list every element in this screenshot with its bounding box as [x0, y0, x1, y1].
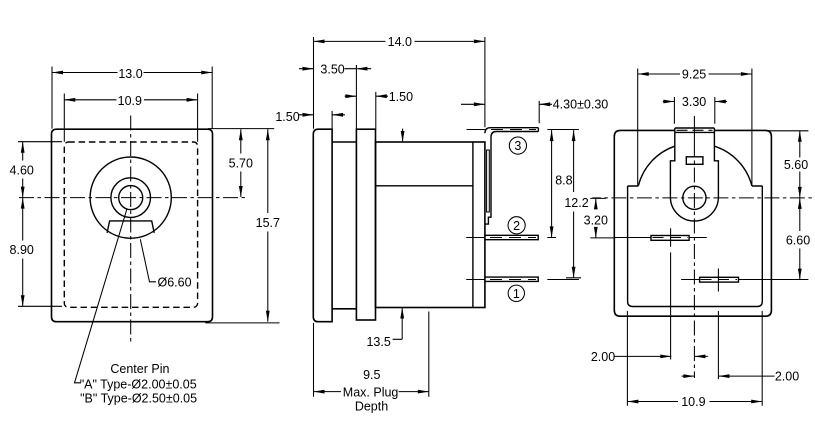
pin A rect (pin2 lug) [651, 236, 689, 241]
outer circle Ø6.60 [90, 157, 171, 238]
svg-text:13.5: 13.5 [366, 335, 390, 349]
dim 10.9 [64, 94, 197, 142]
pin A centerline [670, 228, 672, 359]
small window rect [686, 157, 703, 165]
horizontal centerline [593, 197, 813, 199]
dim 15.7 [205, 129, 280, 323]
shoulders [628, 185, 763, 187]
pin3 bar end-on [675, 128, 715, 132]
pin 2 [485, 235, 538, 239]
outer housing rect [52, 129, 213, 322]
svg-text:10.9: 10.9 [681, 395, 705, 409]
vertical centerline [130, 116, 132, 343]
dim 4.30±0.30 [461, 98, 608, 124]
svg-text:Ø6.60: Ø6.60 [158, 276, 192, 290]
inner dashed rect [64, 142, 197, 307]
dim 8.8 [550, 130, 573, 237]
dim 12.2 [564, 130, 588, 278]
balloon 2 [508, 217, 525, 234]
dim 6.60 [786, 198, 810, 280]
svg-text:3.50: 3.50 [320, 62, 344, 76]
balloon 3 [509, 137, 526, 154]
svg-text:13.0: 13.0 [118, 67, 142, 81]
body [376, 142, 485, 308]
svg-text:Depth: Depth [355, 399, 388, 413]
svg-text:1: 1 [513, 287, 520, 301]
svg-text:1.50: 1.50 [275, 110, 299, 124]
pin 1 [485, 277, 538, 281]
dim 2.00 right [682, 370, 800, 384]
horizontal centerline [19, 197, 246, 199]
tab sides [670, 132, 718, 197]
svg-text:15.7: 15.7 [256, 216, 280, 230]
outer housing rect [614, 130, 771, 316]
svg-text:5.70: 5.70 [229, 156, 253, 170]
vertical centerline [693, 116, 695, 142]
svg-text:4.60: 4.60 [10, 163, 34, 177]
pin3 centerline [467, 129, 485, 131]
barrel lines [332, 142, 356, 309]
svg-text:Center Pin: Center Pin [110, 362, 169, 376]
front flange [313, 129, 332, 322]
pin A crossing line [615, 237, 707, 239]
leader Center Pin [75, 209, 198, 405]
svg-text:8.90: 8.90 [10, 243, 34, 257]
svg-text:3: 3 [514, 139, 521, 153]
dim 9.25 [638, 68, 752, 186]
svg-text:2.00: 2.00 [591, 350, 615, 364]
dim 14.0 [314, 35, 485, 129]
dim 2.00 left [591, 350, 708, 364]
inner shell outline [628, 186, 763, 307]
svg-text:5.60: 5.60 [784, 158, 808, 172]
pin B centerline [717, 269, 719, 380]
dim 4.60 [10, 142, 62, 198]
svg-text:1.50: 1.50 [389, 90, 413, 104]
dome arcs [638, 146, 752, 186]
svg-text:6.60: 6.60 [786, 233, 810, 247]
bracket slot [487, 150, 490, 212]
svg-text:8.8: 8.8 [555, 173, 572, 187]
pin B rect (pin1 lug) [700, 277, 739, 282]
center pin circle [119, 186, 143, 210]
svg-text:3.20: 3.20 [584, 213, 608, 227]
center circle [683, 186, 706, 209]
svg-text:Max. Plug: Max. Plug [343, 385, 399, 399]
notch under circle [107, 221, 154, 233]
body interior lines [376, 142, 473, 308]
mounting plate [356, 129, 375, 320]
dim 3.50 [299, 62, 371, 129]
svg-text:2.00: 2.00 [775, 370, 799, 384]
dim 10.9 bottom [627, 311, 762, 409]
svg-text:9.5: 9.5 [363, 368, 380, 382]
svg-text:"A" Type-Ø2.00±0.05: "A" Type-Ø2.00±0.05 [80, 378, 197, 392]
middle circle [111, 178, 151, 218]
pin B crossing line [681, 279, 808, 281]
svg-text:"B" Type-Ø2.50±0.05: "B" Type-Ø2.50±0.05 [80, 392, 197, 406]
svg-text:2: 2 [513, 219, 520, 233]
svg-text:10.9: 10.9 [118, 94, 142, 108]
dim 13.0 [52, 67, 212, 129]
svg-text:4.30±0.30: 4.30±0.30 [553, 98, 609, 112]
dim 3.20 [584, 198, 616, 238]
pin 3 with bracket [485, 128, 539, 224]
svg-text:14.0: 14.0 [388, 35, 412, 49]
dim 1.50 right (plate) [345, 90, 413, 129]
svg-text:12.2: 12.2 [564, 196, 588, 210]
dim 3.30 [663, 95, 727, 124]
dim 1.50 left (flange) [275, 110, 345, 129]
U arc below circle [670, 197, 718, 221]
dim 9.5 Max. Plug Depth [314, 312, 429, 414]
dim 5.60 [768, 131, 809, 198]
balloon 1 [508, 285, 524, 301]
svg-text:9.25: 9.25 [682, 68, 706, 82]
leader Ø6.60 [140, 239, 191, 289]
dim 5.70 [229, 129, 253, 197]
dim 8.90 [10, 198, 62, 307]
svg-text:3.30: 3.30 [682, 95, 706, 109]
dim 13.5 [366, 129, 404, 349]
